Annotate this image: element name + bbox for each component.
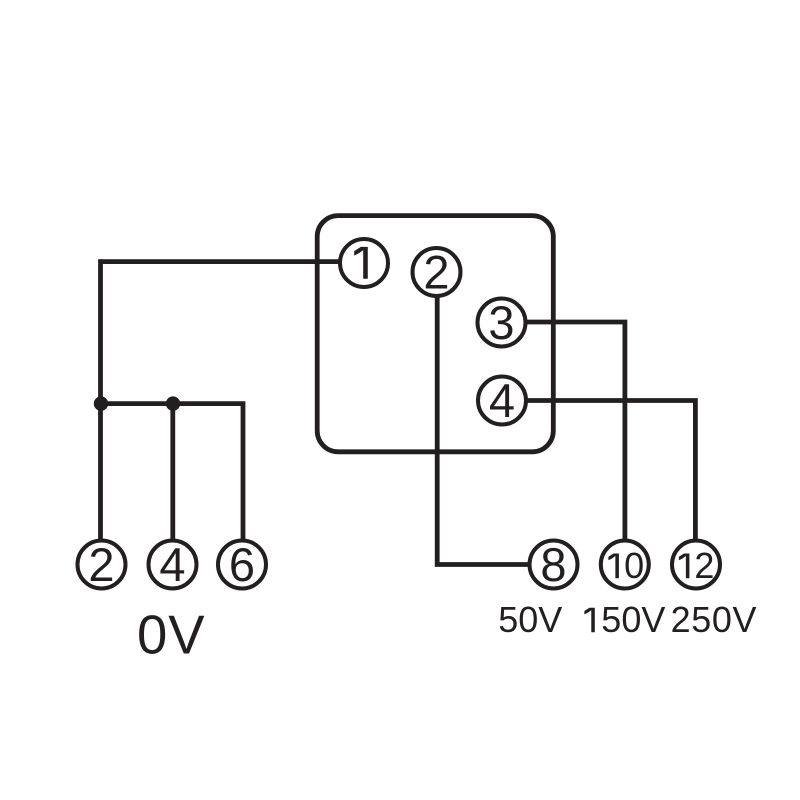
junction J1 on 0V bus: [94, 396, 108, 410]
label 150V: digit 1: [584, 608, 594, 633]
svg-text:2: 2: [88, 538, 114, 591]
wire W5: terminal 2 (block) down and right to terminal 8: [437, 293, 530, 565]
svg-text:0: 0: [624, 545, 644, 586]
terminal 12 (250V): [672, 541, 720, 589]
wire W4: drop from 0V bus to terminal 4: [170, 404, 175, 541]
terminal 4 (0V group): [149, 538, 197, 591]
svg-text:2: 2: [694, 545, 714, 586]
svg-text:6: 6: [229, 538, 255, 591]
terminal 1 (block pin 1): [340, 239, 388, 287]
terminal 3 (block pin 3): [478, 296, 526, 349]
junction J2 on 0V bus: [166, 396, 180, 410]
terminal 6 (0V group): [218, 538, 266, 591]
svg-text:0V: 0V: [137, 605, 206, 666]
svg-text:2: 2: [423, 245, 449, 298]
svg-text:250V: 250V: [671, 599, 757, 640]
wire W1: terminal 1 to left bus: [101, 259, 343, 264]
wire W3: 0V bus horizontal with drop to terminal 6: [101, 404, 244, 541]
svg-text:50V: 50V: [601, 599, 665, 640]
terminal 4 (block pin 4): [478, 374, 526, 427]
terminal block outline: [317, 216, 553, 452]
svg-text:4: 4: [489, 374, 515, 427]
wire W6: terminal 3 right and down to terminal 10: [523, 322, 625, 541]
svg-text:3: 3: [488, 296, 514, 349]
svg-text:8: 8: [540, 538, 566, 591]
terminal 10 (150V): [601, 541, 649, 589]
terminal 2 (block pin 2): [413, 245, 461, 298]
svg-text:50V: 50V: [498, 599, 562, 640]
wire W2: left bus vertical down to terminal 2 (0V): [98, 259, 103, 541]
terminal 8 (50V): [530, 538, 578, 591]
wire W7: terminal 4 (block) right and down to terminal 12: [525, 401, 695, 542]
svg-text:4: 4: [159, 538, 185, 591]
terminal 2 (0V group): [78, 538, 126, 591]
